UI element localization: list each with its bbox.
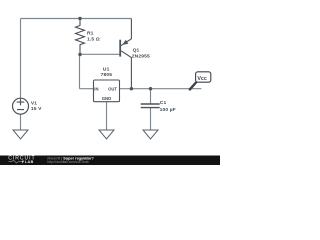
svg-text:LAB: LAB bbox=[25, 160, 34, 164]
net flag Vcc pole bbox=[189, 82, 196, 90]
value 15 V bbox=[31, 106, 42, 112]
wire: base net from corner through R1 bottom to Q1 base bbox=[80, 53, 121, 55]
label C1 bbox=[160, 100, 167, 106]
wire: vertical drop to U1 IN level bbox=[79, 55, 81, 89]
node: junction dot collector/OUT bbox=[130, 87, 133, 90]
wire: top rail from V1 to Q1 emitter bbox=[21, 18, 132, 20]
label Q1 bbox=[133, 48, 140, 54]
svg-text:V1: V1 bbox=[31, 100, 37, 106]
svg-text:15 V: 15 V bbox=[31, 106, 42, 112]
transistor Q1 collector lead bbox=[121, 51, 131, 89]
value 1.5 Ω bbox=[87, 37, 100, 43]
pin label IN bbox=[94, 86, 98, 91]
value 7805 bbox=[101, 72, 113, 78]
op-amp U1 regulator box 7805 bbox=[94, 80, 120, 102]
value 100 µF bbox=[160, 107, 176, 113]
svg-text:Q1: Q1 bbox=[133, 48, 140, 54]
footer url line bbox=[47, 160, 89, 164]
footer bar bbox=[0, 156, 220, 166]
capacitor C1 bottom plate bbox=[141, 107, 160, 109]
net flag Vcc box bbox=[196, 72, 211, 82]
footer logo LAB bbox=[25, 160, 34, 164]
svg-text:U1: U1 bbox=[103, 66, 110, 72]
svg-text:7805: 7805 bbox=[101, 72, 113, 78]
svg-text:2N2955: 2N2955 bbox=[132, 53, 150, 59]
wire: C1 bottom lead to ground bbox=[150, 108, 152, 131]
pin label OUT bbox=[108, 86, 117, 91]
wire: U1 GND pin down to ground bbox=[106, 102, 108, 131]
svg-text:GND: GND bbox=[102, 96, 112, 101]
transistor Q1 emitter arrow (PNP) bbox=[122, 40, 128, 45]
label R1 bbox=[87, 30, 94, 36]
footer title line bbox=[47, 156, 94, 160]
node: junction dot C1 tap bbox=[149, 87, 152, 90]
wire: C1 top lead bbox=[150, 89, 152, 104]
wire: OUT rail from U1 OUT to Vcc flag bbox=[120, 88, 202, 90]
ground under V1 bbox=[13, 130, 28, 139]
wire: V1 - terminal down to ground bbox=[20, 114, 22, 130]
label V1 bbox=[31, 100, 37, 106]
svg-text:C1: C1 bbox=[160, 100, 167, 106]
voltage source V1 bbox=[13, 98, 29, 114]
wire: left vertical from top rail down to V1 + terminal bbox=[20, 19, 22, 99]
net label Vcc bbox=[197, 76, 206, 82]
svg-text:http://circuitlab.com/c/a72nab: http://circuitlab.com/c/a72nab bbox=[47, 160, 89, 164]
ground under U1 bbox=[99, 130, 114, 139]
svg-text:Vcc: Vcc bbox=[197, 76, 206, 82]
svg-text:R1: R1 bbox=[87, 30, 94, 36]
svg-text:IN: IN bbox=[94, 86, 98, 91]
value 2N2955 bbox=[132, 53, 150, 59]
wire: into U1 IN pin bbox=[80, 88, 94, 90]
label U1 bbox=[103, 66, 110, 72]
resistor R1 bbox=[76, 19, 85, 55]
node: junction dot R1 top bbox=[78, 17, 81, 20]
pin label GND bbox=[102, 96, 112, 101]
transistor Q1 base bar bbox=[119, 40, 121, 57]
ground under C1 bbox=[143, 130, 158, 139]
capacitor C1 top plate bbox=[141, 103, 160, 105]
svg-text:100 µF: 100 µF bbox=[160, 107, 176, 113]
transistor Q1 emitter lead bbox=[121, 19, 132, 46]
svg-text:OUT: OUT bbox=[108, 86, 117, 91]
footer logo waveform and bolt bbox=[9, 160, 25, 164]
node: junction dot R1 bottom bbox=[78, 53, 81, 56]
footer logo CIRCUIT bbox=[8, 156, 35, 162]
svg-text:1.5 Ω: 1.5 Ω bbox=[87, 37, 100, 43]
